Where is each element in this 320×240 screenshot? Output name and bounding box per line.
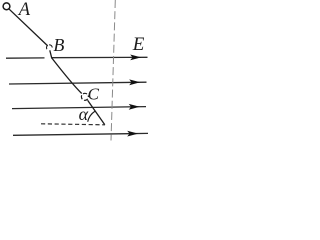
field line 3 (12, 107, 146, 109)
angle arc alpha (88, 111, 95, 122)
dashed vertical guide line (111, 0, 115, 141)
trajectory segment B to C (50, 50, 82, 93)
svg-text:B: B (53, 35, 64, 55)
arrowhead on field line 3 (129, 104, 140, 110)
field line 2 (9, 82, 147, 84)
trajectory segment C to end point (88, 100, 105, 125)
dashed horizontal reference line for angle alpha (41, 124, 105, 125)
field line 4 (13, 133, 148, 135)
svg-text:α: α (79, 104, 89, 124)
svg-text:A: A (17, 0, 31, 20)
svg-text:E: E (132, 34, 145, 55)
svg-text:C: C (88, 85, 100, 104)
trajectory segment A to B (9, 9, 47, 45)
ball at position B (dashed circle) (46, 45, 52, 49)
arrowhead on field line 4 (127, 131, 138, 137)
ball at position A (circle) (3, 3, 10, 10)
arrowhead on field line 2 (129, 79, 140, 85)
arrowhead on field line 1 (130, 55, 141, 61)
field line 1 (6, 56, 148, 59)
ball at position C (dashed circle) (81, 93, 88, 100)
